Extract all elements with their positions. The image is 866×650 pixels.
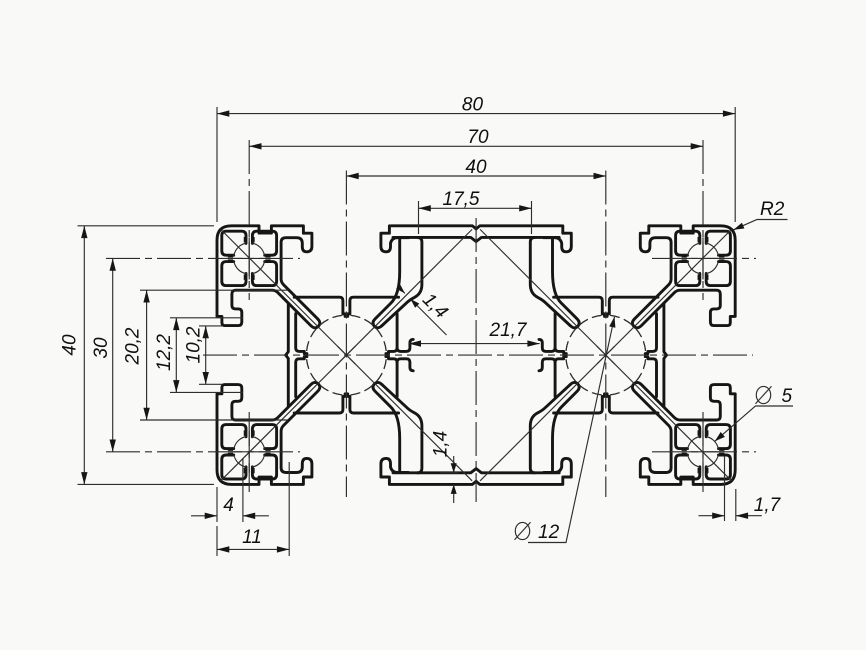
NE web strut of module A (upper line from face underside) xyxy=(373,238,400,328)
mirrored quarter bottom-right xyxy=(476,315,735,484)
top face centre segment xyxy=(391,226,476,229)
screw hole 5 mm circle xyxy=(234,243,265,274)
cube E vertical centreline xyxy=(702,412,704,492)
central vertical centreline xyxy=(475,218,477,502)
corner boss centre cross xyxy=(228,237,270,279)
mirrored quarter top-right xyxy=(476,226,735,395)
dimension 11 xyxy=(217,462,289,556)
dimension 1,4 wall (diagonal) xyxy=(396,285,452,335)
svg-text:30: 30 xyxy=(91,337,112,359)
svg-text:20,2: 20,2 xyxy=(123,327,144,365)
svg-text:R2: R2 xyxy=(760,199,785,220)
diameter 12 label xyxy=(515,317,616,543)
svg-text:1,4: 1,4 xyxy=(418,289,452,323)
cube A vertical centreline xyxy=(248,140,250,300)
cube C vertical centreline xyxy=(702,140,704,300)
svg-text:10,2: 10,2 xyxy=(184,326,205,363)
dimension 40 overall height xyxy=(60,226,215,485)
bore 12 mm circle (dashed arcs) xyxy=(307,315,387,395)
svg-text:5: 5 xyxy=(782,386,793,407)
radius R2 leader xyxy=(734,199,788,230)
svg-text:17,5: 17,5 xyxy=(443,189,480,210)
module B vertical centreline xyxy=(605,171,607,498)
mirrored quarter bottom-left xyxy=(217,315,476,484)
profile cross-section: quarter geometry xyxy=(217,226,476,395)
module A vertical centreline xyxy=(345,171,347,498)
cube A horizontal centreline xyxy=(106,257,300,259)
central cavity left wall (upper throat) turning into web lower line xyxy=(382,237,422,325)
T-slot mouth right lip xyxy=(381,226,409,252)
corner boss C1 pocket outlines (4x around screw hole) xyxy=(222,231,277,285)
core cell left side + W-slit top wall + tooth xyxy=(296,314,307,354)
profile outer contour (top-left quarter): faces, corner R2, T-slot mouth lips, web strut xyxy=(217,226,320,328)
svg-text:1,4: 1,4 xyxy=(431,431,452,457)
cube E horizontal centreline xyxy=(652,451,756,453)
horizontal centreline xyxy=(203,354,753,356)
dimension 21,7 cavity width xyxy=(409,320,540,347)
dimension 1,4 bottom wall xyxy=(431,431,459,503)
svg-text:12,2: 12,2 xyxy=(154,334,175,371)
svg-text:11: 11 xyxy=(242,527,262,548)
diameter 5 label xyxy=(715,386,793,441)
svg-text:4: 4 xyxy=(223,495,234,516)
svg-text:70: 70 xyxy=(467,127,489,148)
dimension 80 overall width xyxy=(217,95,735,223)
core cell right side + E-slit top wall + tooth xyxy=(386,314,397,354)
cube D vertical centreline xyxy=(248,412,250,492)
dimension 40 module spacing xyxy=(346,157,605,179)
svg-text:80: 80 xyxy=(462,95,484,116)
core cell top-right + N-slit right wall + tooth xyxy=(348,297,399,316)
corner boss C1 slit serrations xyxy=(229,238,270,279)
end T-slot cavity right wall xyxy=(286,304,289,356)
dimension 20,2 slot cavity xyxy=(123,290,289,420)
cube D horizontal centreline xyxy=(106,451,300,453)
dimension 10,2 slot mouth xyxy=(184,326,223,384)
cube C horizontal centreline xyxy=(652,257,756,259)
diagonal centreline NE-SW (half) xyxy=(337,229,472,364)
svg-text:40: 40 xyxy=(465,157,487,178)
dimension 30 hole spacing xyxy=(91,258,116,451)
E-slit extension to central cavity wall (tongue) xyxy=(397,339,413,351)
diagonal centreline NW-SE (half) xyxy=(221,229,356,364)
svg-text:21,7: 21,7 xyxy=(489,320,528,341)
dimension 17,5 cavity throat xyxy=(419,189,532,234)
dimension 70 hole spacing xyxy=(249,127,703,150)
core cell top-left + N-slit left wall + tooth xyxy=(294,297,345,316)
dimension 4 xyxy=(191,458,269,522)
central cavity ceiling with centre notch xyxy=(393,237,476,241)
dimension 1,7 wall xyxy=(699,456,782,521)
svg-text:40: 40 xyxy=(60,334,81,356)
svg-text:1,7: 1,7 xyxy=(754,495,782,516)
svg-text:12: 12 xyxy=(538,522,560,543)
dimension 12,2 slot lips xyxy=(154,318,243,393)
